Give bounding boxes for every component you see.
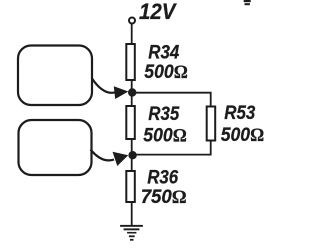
wire node A to R53 (top horizontal + corner) <box>132 93 211 106</box>
wire R36 to ground <box>131 203 133 226</box>
wire node A to R35 <box>131 93 133 106</box>
resistor R36 <box>126 171 135 202</box>
svg-text:750Ω: 750Ω <box>141 187 187 208</box>
resistor R34 <box>126 44 135 80</box>
svg-text:R53: R53 <box>224 103 255 124</box>
svg-text:500Ω: 500Ω <box>144 62 188 83</box>
leader wire from box 1 to node A <box>92 79 116 93</box>
svg-text:R36: R36 <box>147 167 178 188</box>
callout box 2 <box>19 120 92 175</box>
resistor R35 <box>126 106 135 139</box>
ground <box>120 225 143 241</box>
arrowhead pointing to node B <box>113 152 129 166</box>
arrowhead pointing to node A <box>114 86 129 99</box>
wire R35 to node B <box>131 140 133 156</box>
wire R53 to node B (corner + bottom horizontal) <box>132 141 211 155</box>
resistor R53 <box>207 107 216 141</box>
node 12V supply terminal <box>129 18 135 24</box>
svg-text:12V: 12V <box>139 0 178 24</box>
node B junction dot <box>128 151 136 159</box>
svg-text:500Ω: 500Ω <box>143 125 187 146</box>
svg-text:R34: R34 <box>148 42 179 63</box>
node A junction dot <box>128 88 136 96</box>
svg-text:R35: R35 <box>148 104 179 125</box>
callout box 1 <box>18 46 92 106</box>
leader wire from box 2 to node B <box>91 150 115 161</box>
ground (partial, cropped figure at top right) <box>244 0 251 5</box>
svg-text:500Ω: 500Ω <box>221 125 265 146</box>
wire 12V terminal to R34 <box>131 24 133 44</box>
wire node B to R36 <box>131 155 133 171</box>
wire R34 to node A <box>131 81 133 93</box>
